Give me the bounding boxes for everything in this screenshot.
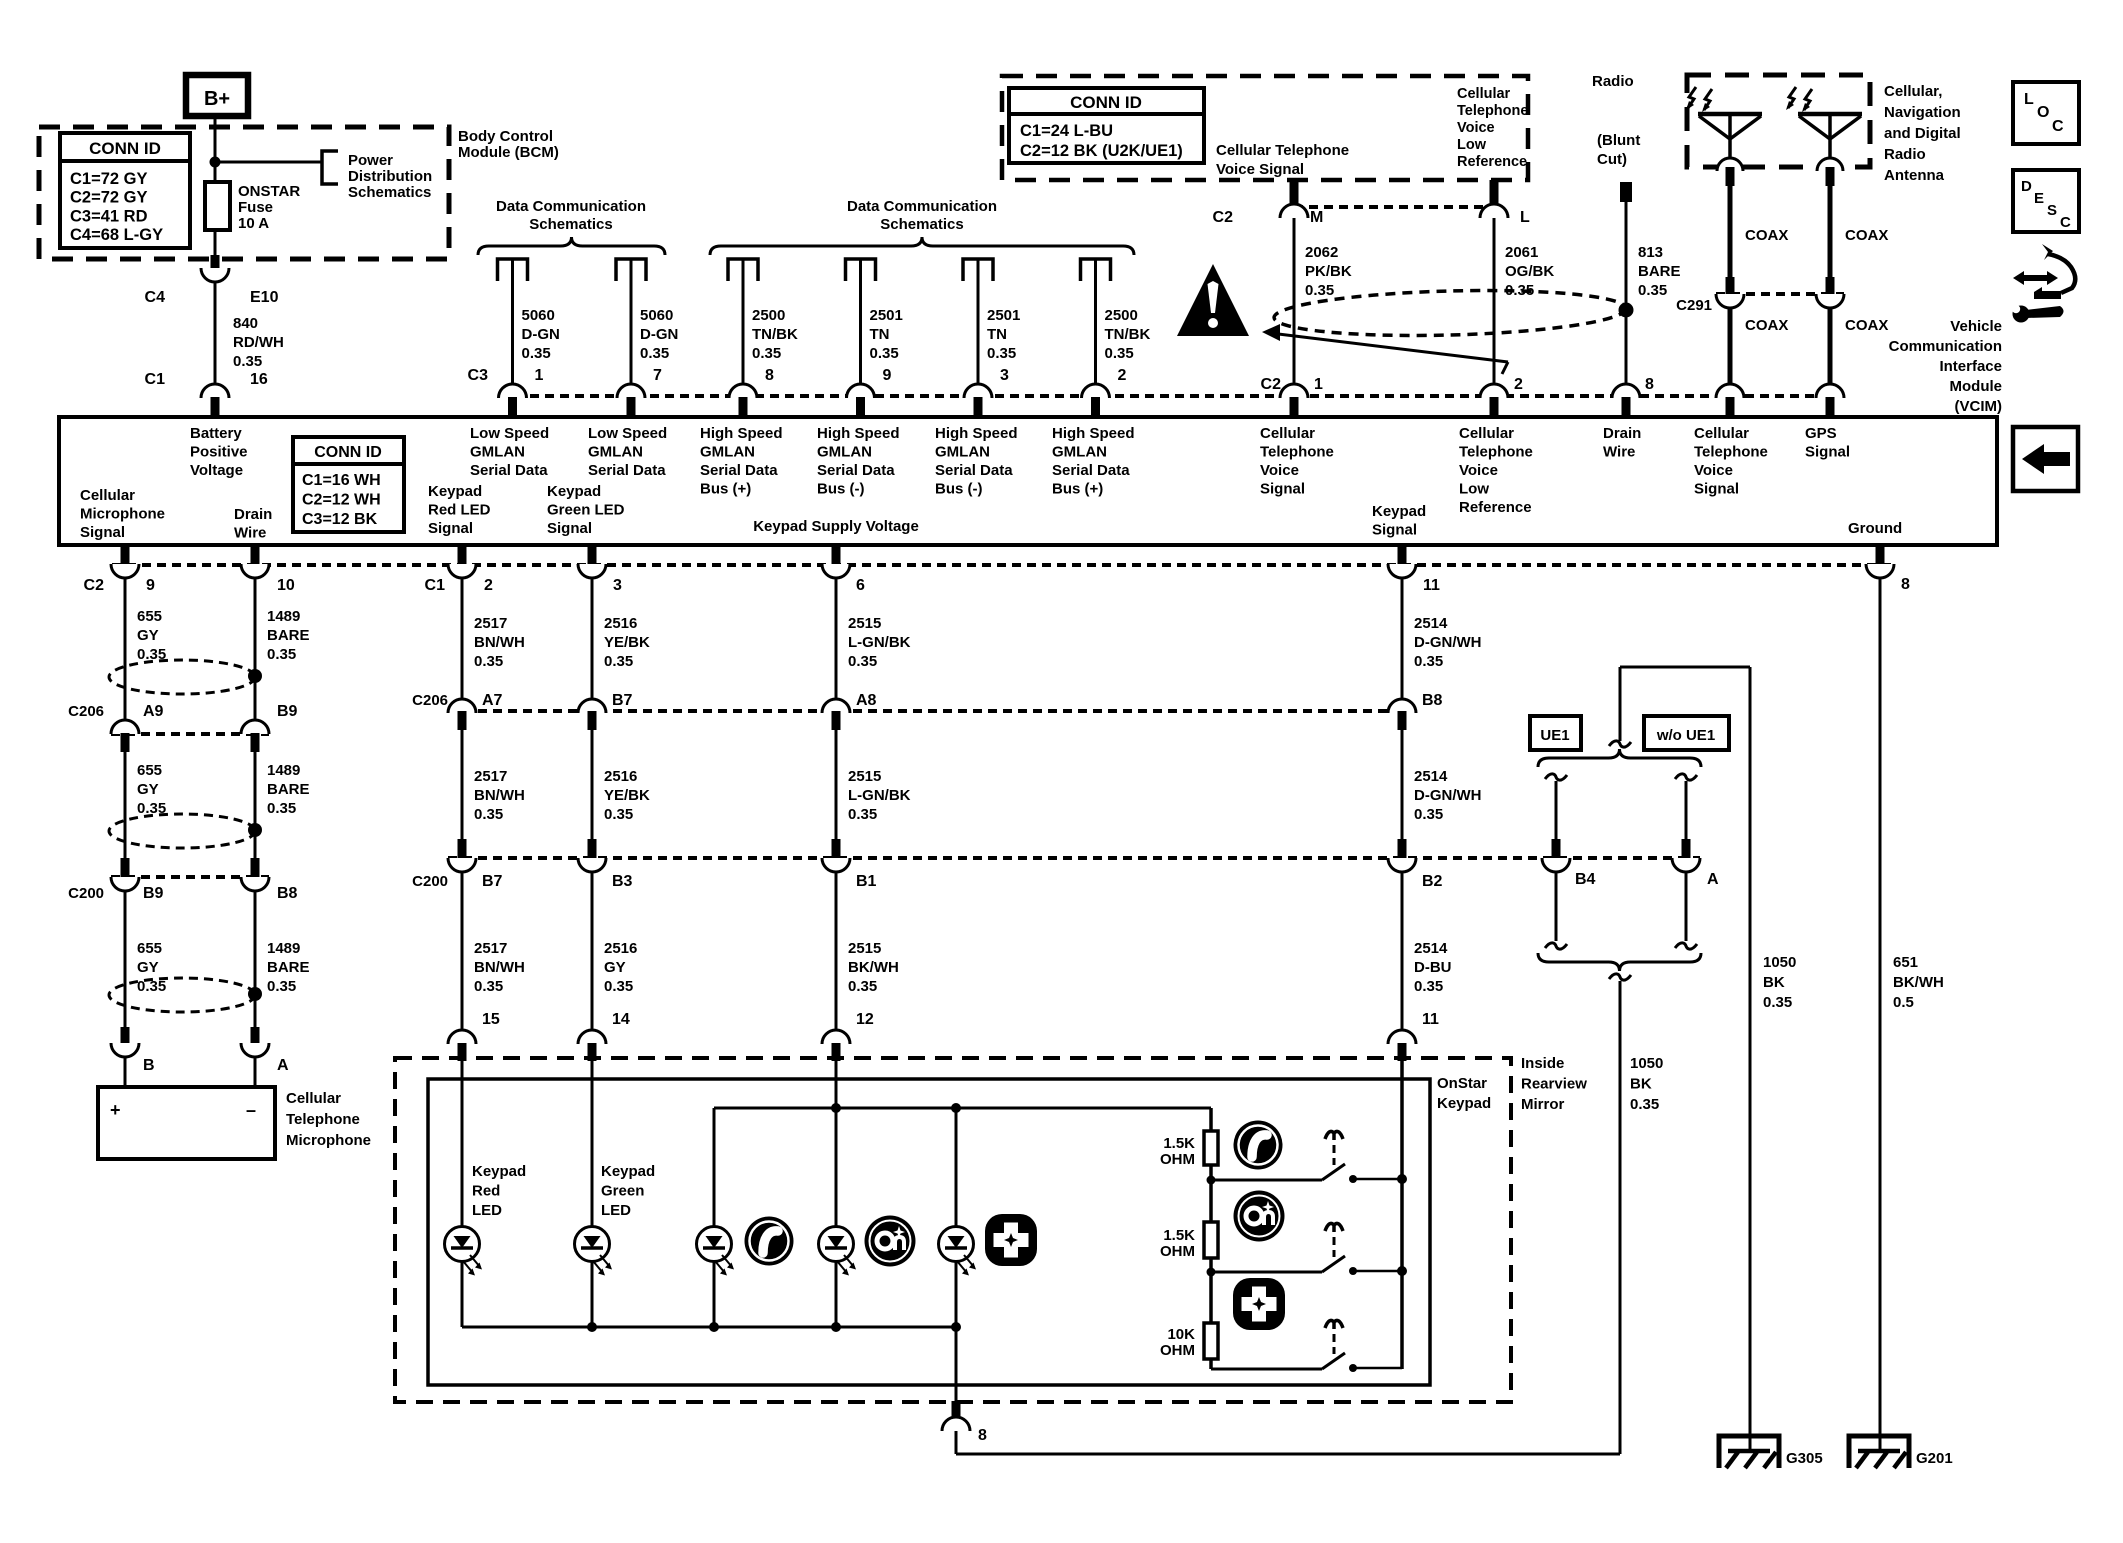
svg-text:B+: B+ xyxy=(204,88,230,110)
svg-text:D-BU: D-BU xyxy=(1414,959,1452,976)
svg-text:0.35: 0.35 xyxy=(640,345,669,362)
svg-text:G305: G305 xyxy=(1786,1450,1823,1467)
svg-text:Telephone: Telephone xyxy=(286,1111,360,1128)
svg-text:Keypad Supply Voltage: Keypad Supply Voltage xyxy=(753,518,919,535)
svg-text:High Speed: High Speed xyxy=(817,425,900,442)
svg-text:Keypad: Keypad xyxy=(1437,1095,1491,1112)
svg-text:7: 7 xyxy=(653,367,662,384)
svg-text:Serial Data: Serial Data xyxy=(1052,462,1130,479)
svg-text:Drain: Drain xyxy=(234,506,272,523)
svg-text:COAX: COAX xyxy=(1745,317,1788,334)
svg-text:C1: C1 xyxy=(425,577,446,594)
svg-text:Distribution: Distribution xyxy=(348,168,432,185)
svg-text:655: 655 xyxy=(137,762,162,779)
svg-text:Voltage: Voltage xyxy=(190,462,243,479)
svg-text:2517: 2517 xyxy=(474,940,507,957)
svg-text:Serial Data: Serial Data xyxy=(817,462,895,479)
svg-text:Red: Red xyxy=(472,1183,500,1200)
svg-text:C2=12 WH: C2=12 WH xyxy=(302,492,381,509)
svg-text:Telephone: Telephone xyxy=(1260,444,1334,461)
svg-text:0.35: 0.35 xyxy=(1414,653,1443,670)
svg-text:BARE: BARE xyxy=(267,959,310,976)
svg-text:Ground: Ground xyxy=(1848,520,1902,537)
svg-text:2515: 2515 xyxy=(848,615,881,632)
svg-text:1050: 1050 xyxy=(1630,1055,1663,1072)
svg-text:C200: C200 xyxy=(68,885,104,902)
svg-text:High Speed: High Speed xyxy=(935,425,1018,442)
svg-text:(VCIM): (VCIM) xyxy=(1955,398,2003,415)
svg-text:0.35: 0.35 xyxy=(1414,806,1443,823)
svg-text:11: 11 xyxy=(1423,577,1440,594)
svg-text:BK/WH: BK/WH xyxy=(848,959,899,976)
svg-text:High Speed: High Speed xyxy=(1052,425,1135,442)
svg-text:A9: A9 xyxy=(143,703,164,720)
svg-text:Telephone: Telephone xyxy=(1457,103,1528,119)
svg-text:C291: C291 xyxy=(1676,297,1712,314)
svg-text:2500: 2500 xyxy=(1105,307,1138,324)
svg-text:8: 8 xyxy=(1901,576,1910,593)
svg-text:Antenna: Antenna xyxy=(1884,167,1945,184)
svg-text:A: A xyxy=(1707,871,1719,888)
svg-text:0.35: 0.35 xyxy=(1638,282,1667,299)
svg-text:CONN ID: CONN ID xyxy=(314,444,382,461)
svg-text:Schematics: Schematics xyxy=(529,216,612,233)
svg-text:C1=16 WH: C1=16 WH xyxy=(302,472,381,489)
svg-text:840: 840 xyxy=(233,315,258,332)
svg-text:1.5K: 1.5K xyxy=(1163,1227,1195,1244)
svg-text:M: M xyxy=(1310,209,1323,226)
svg-text:1489: 1489 xyxy=(267,608,300,625)
svg-text:C4=68 L-GY: C4=68 L-GY xyxy=(70,226,163,244)
svg-text:and Digital: and Digital xyxy=(1884,125,1961,142)
svg-text:14: 14 xyxy=(612,1011,630,1028)
svg-text:E10: E10 xyxy=(250,289,279,306)
svg-text:Signal: Signal xyxy=(547,520,592,537)
svg-text:C2=12 BK (U2K/UE1): C2=12 BK (U2K/UE1) xyxy=(1020,142,1183,160)
svg-text:Mirror: Mirror xyxy=(1521,1096,1565,1113)
svg-text:TN/BK: TN/BK xyxy=(752,326,798,343)
svg-text:2515: 2515 xyxy=(848,768,881,785)
svg-text:0.35: 0.35 xyxy=(604,978,633,995)
svg-text:C206: C206 xyxy=(412,692,448,709)
svg-text:GMLAN: GMLAN xyxy=(700,444,755,461)
svg-text:Cellular: Cellular xyxy=(1694,425,1749,442)
svg-text:Cellular: Cellular xyxy=(286,1090,341,1107)
svg-text:Signal: Signal xyxy=(1260,481,1305,498)
svg-text:Inside: Inside xyxy=(1521,1055,1564,1072)
svg-text:Power: Power xyxy=(348,152,393,169)
svg-text:O: O xyxy=(2037,104,2049,121)
svg-text:0.35: 0.35 xyxy=(848,653,877,670)
svg-text:C1=24 L-BU: C1=24 L-BU xyxy=(1020,122,1113,140)
svg-text:C1=72 GY: C1=72 GY xyxy=(70,170,148,188)
svg-text:C3=41 RD: C3=41 RD xyxy=(70,207,148,225)
svg-text:655: 655 xyxy=(137,940,162,957)
svg-text:Microphone: Microphone xyxy=(286,1132,371,1149)
svg-text:Data Communication: Data Communication xyxy=(496,198,646,215)
svg-text:6: 6 xyxy=(856,577,865,594)
svg-text:GPS: GPS xyxy=(1805,425,1837,442)
svg-text:D: D xyxy=(2021,178,2032,195)
svg-text:Signal: Signal xyxy=(428,520,473,537)
svg-text:OnStar: OnStar xyxy=(1437,1075,1487,1092)
svg-text:2517: 2517 xyxy=(474,615,507,632)
svg-text:1489: 1489 xyxy=(267,940,300,957)
svg-text:0.35: 0.35 xyxy=(1105,345,1134,362)
svg-text:RD/WH: RD/WH xyxy=(233,334,284,351)
svg-text:1: 1 xyxy=(1314,376,1323,393)
svg-text:5060: 5060 xyxy=(522,307,555,324)
svg-text:UE1: UE1 xyxy=(1540,727,1569,744)
svg-text:Cellular Telephone: Cellular Telephone xyxy=(1216,142,1349,159)
svg-text:+: + xyxy=(110,1100,121,1120)
svg-text:Low Speed: Low Speed xyxy=(470,425,549,442)
svg-text:Voice: Voice xyxy=(1459,462,1498,479)
svg-text:0.35: 0.35 xyxy=(604,806,633,823)
svg-text:0.35: 0.35 xyxy=(233,353,262,370)
svg-text:Drain: Drain xyxy=(1603,425,1641,442)
svg-text:Red LED: Red LED xyxy=(428,502,491,519)
svg-text:0.35: 0.35 xyxy=(267,646,296,663)
svg-text:3: 3 xyxy=(1000,367,1009,384)
svg-text:Keypad: Keypad xyxy=(601,1163,655,1180)
svg-text:–: – xyxy=(246,1100,256,1120)
svg-text:B2: B2 xyxy=(1422,873,1443,890)
svg-text:2501: 2501 xyxy=(987,307,1020,324)
svg-text:GY: GY xyxy=(137,627,159,644)
svg-text:2516: 2516 xyxy=(604,615,637,632)
svg-text:Keypad: Keypad xyxy=(428,483,482,500)
svg-text:16: 16 xyxy=(250,371,268,388)
svg-text:9: 9 xyxy=(146,577,155,594)
svg-text:10 A: 10 A xyxy=(238,215,269,232)
svg-text:GMLAN: GMLAN xyxy=(470,444,525,461)
svg-text:BARE: BARE xyxy=(267,627,310,644)
svg-text:Navigation: Navigation xyxy=(1884,104,1961,121)
svg-text:COAX: COAX xyxy=(1745,227,1788,244)
svg-text:9: 9 xyxy=(883,367,892,384)
svg-text:OG/BK: OG/BK xyxy=(1505,263,1554,280)
svg-text:A8: A8 xyxy=(856,692,877,709)
svg-text:1489: 1489 xyxy=(267,762,300,779)
svg-text:0.35: 0.35 xyxy=(1763,994,1792,1011)
svg-text:Low: Low xyxy=(1459,481,1489,498)
svg-text:C: C xyxy=(2060,214,2071,231)
svg-text:Signal: Signal xyxy=(1805,444,1850,461)
svg-text:C1: C1 xyxy=(145,371,166,388)
svg-text:Signal: Signal xyxy=(80,524,125,541)
svg-text:w/o UE1: w/o UE1 xyxy=(1656,727,1715,744)
svg-text:Wire: Wire xyxy=(1603,444,1635,461)
svg-text:COAX: COAX xyxy=(1845,317,1888,334)
svg-text:CONN ID: CONN ID xyxy=(1070,93,1142,112)
svg-text:Serial Data: Serial Data xyxy=(588,462,666,479)
svg-text:3: 3 xyxy=(613,577,622,594)
svg-text:A: A xyxy=(277,1057,289,1074)
svg-text:OHM: OHM xyxy=(1160,1243,1195,1260)
svg-text:D-GN/WH: D-GN/WH xyxy=(1414,787,1482,804)
svg-text:L: L xyxy=(1520,209,1530,226)
svg-text:Cellular: Cellular xyxy=(80,487,135,504)
svg-text:Telephone: Telephone xyxy=(1694,444,1768,461)
svg-text:D-GN: D-GN xyxy=(522,326,560,343)
svg-text:Low: Low xyxy=(1457,137,1487,153)
svg-text:Reference: Reference xyxy=(1457,154,1527,170)
svg-text:Keypad: Keypad xyxy=(472,1163,526,1180)
svg-text:GMLAN: GMLAN xyxy=(1052,444,1107,461)
svg-text:BK: BK xyxy=(1630,1076,1652,1093)
svg-text:Module: Module xyxy=(1950,378,2003,395)
svg-text:11: 11 xyxy=(1422,1011,1439,1028)
svg-text:2515: 2515 xyxy=(848,940,881,957)
svg-text:BN/WH: BN/WH xyxy=(474,787,525,804)
svg-text:2061: 2061 xyxy=(1505,244,1538,261)
svg-text:0.35: 0.35 xyxy=(987,345,1016,362)
svg-text:12: 12 xyxy=(856,1011,874,1028)
svg-text:Signal: Signal xyxy=(1372,522,1417,539)
svg-text:C3=12 BK: C3=12 BK xyxy=(302,511,378,528)
svg-text:0.35: 0.35 xyxy=(137,646,166,663)
svg-text:B1: B1 xyxy=(856,873,877,890)
svg-text:C4: C4 xyxy=(145,289,166,306)
svg-text:GY: GY xyxy=(604,959,626,976)
svg-text:Voice: Voice xyxy=(1260,462,1299,479)
svg-text:High Speed: High Speed xyxy=(700,425,783,442)
svg-text:LED: LED xyxy=(601,1202,631,1219)
svg-text:Microphone: Microphone xyxy=(80,506,165,523)
svg-text:0.35: 0.35 xyxy=(1630,1096,1659,1113)
svg-text:15: 15 xyxy=(482,1011,500,1028)
svg-text:C2: C2 xyxy=(1261,376,1282,393)
svg-text:2514: 2514 xyxy=(1414,615,1448,632)
svg-text:Bus (-): Bus (-) xyxy=(935,481,983,498)
svg-text:0.35: 0.35 xyxy=(267,978,296,995)
svg-text:0.35: 0.35 xyxy=(848,978,877,995)
svg-text:2500: 2500 xyxy=(752,307,785,324)
svg-text:L-GN/BK: L-GN/BK xyxy=(848,634,911,651)
svg-text:Rearview: Rearview xyxy=(1521,1076,1587,1093)
svg-text:BARE: BARE xyxy=(267,781,310,798)
svg-text:Cellular: Cellular xyxy=(1459,425,1514,442)
svg-text:Signal: Signal xyxy=(1694,481,1739,498)
svg-text:B7: B7 xyxy=(612,692,633,709)
svg-text:B: B xyxy=(143,1057,155,1074)
svg-text:Data Communication: Data Communication xyxy=(847,198,997,215)
svg-text:0.35: 0.35 xyxy=(752,345,781,362)
svg-text:GMLAN: GMLAN xyxy=(817,444,872,461)
svg-text:OHM: OHM xyxy=(1160,1151,1195,1168)
svg-text:Bus (+): Bus (+) xyxy=(700,481,751,498)
svg-text:C2=72 GY: C2=72 GY xyxy=(70,189,148,207)
svg-text:C: C xyxy=(2052,118,2064,135)
svg-text:0.35: 0.35 xyxy=(474,653,503,670)
svg-text:0.5: 0.5 xyxy=(1893,994,1914,1011)
svg-text:Radio: Radio xyxy=(1884,146,1926,163)
svg-text:B9: B9 xyxy=(143,885,164,902)
svg-text:ONSTAR: ONSTAR xyxy=(238,183,300,200)
svg-text:C2: C2 xyxy=(1213,209,1234,226)
svg-text:1: 1 xyxy=(535,367,544,384)
svg-text:0.35: 0.35 xyxy=(137,978,166,995)
svg-text:2: 2 xyxy=(484,577,493,594)
svg-text:L: L xyxy=(2024,91,2034,108)
svg-text:GMLAN: GMLAN xyxy=(935,444,990,461)
svg-text:8: 8 xyxy=(1645,376,1654,393)
svg-text:Interface: Interface xyxy=(1939,358,2002,375)
svg-text:S: S xyxy=(2047,202,2057,219)
svg-text:D-GN/WH: D-GN/WH xyxy=(1414,634,1482,651)
svg-text:Battery: Battery xyxy=(190,425,242,442)
svg-text:2514: 2514 xyxy=(1414,940,1448,957)
svg-text:655: 655 xyxy=(137,608,162,625)
svg-text:(Blunt: (Blunt xyxy=(1597,132,1640,149)
svg-text:2: 2 xyxy=(1118,367,1127,384)
svg-text:0.35: 0.35 xyxy=(267,800,296,817)
svg-text:2501: 2501 xyxy=(870,307,903,324)
svg-text:PK/BK: PK/BK xyxy=(1305,263,1352,280)
svg-text:B7: B7 xyxy=(482,873,503,890)
svg-text:BN/WH: BN/WH xyxy=(474,634,525,651)
svg-text:B9: B9 xyxy=(277,703,298,720)
svg-text:Keypad: Keypad xyxy=(547,483,601,500)
svg-text:TN/BK: TN/BK xyxy=(1105,326,1151,343)
svg-text:G201: G201 xyxy=(1916,1450,1953,1467)
svg-text:A7: A7 xyxy=(482,692,503,709)
svg-text:0.35: 0.35 xyxy=(137,800,166,817)
svg-text:0.35: 0.35 xyxy=(1414,978,1443,995)
svg-text:BK/WH: BK/WH xyxy=(1893,974,1944,991)
svg-text:813: 813 xyxy=(1638,244,1663,261)
svg-text:5060: 5060 xyxy=(640,307,673,324)
svg-text:TN: TN xyxy=(870,326,890,343)
svg-text:C200: C200 xyxy=(412,873,448,890)
svg-text:Bus (-): Bus (-) xyxy=(817,481,865,498)
svg-text:LED: LED xyxy=(472,1202,502,1219)
svg-text:Cellular,: Cellular, xyxy=(1884,83,1942,100)
svg-text:GY: GY xyxy=(137,959,159,976)
svg-text:Reference: Reference xyxy=(1459,499,1532,516)
svg-text:8: 8 xyxy=(765,367,774,384)
svg-text:C206: C206 xyxy=(68,703,104,720)
svg-text:BN/WH: BN/WH xyxy=(474,959,525,976)
svg-text:0.35: 0.35 xyxy=(474,978,503,995)
svg-text:2516: 2516 xyxy=(604,940,637,957)
svg-text:C2: C2 xyxy=(84,577,105,594)
svg-text:Serial Data: Serial Data xyxy=(470,462,548,479)
svg-text:0.35: 0.35 xyxy=(870,345,899,362)
svg-text:Serial Data: Serial Data xyxy=(700,462,778,479)
svg-text:Telephone: Telephone xyxy=(1459,444,1533,461)
svg-text:COAX: COAX xyxy=(1845,227,1888,244)
svg-text:Cut): Cut) xyxy=(1597,151,1627,168)
svg-text:YE/BK: YE/BK xyxy=(604,634,650,651)
svg-text:Cellular: Cellular xyxy=(1457,86,1511,102)
svg-text:E: E xyxy=(2034,190,2044,207)
svg-text:Communication: Communication xyxy=(1889,338,2002,355)
svg-text:Green: Green xyxy=(601,1183,644,1200)
svg-text:2517: 2517 xyxy=(474,768,507,785)
svg-text:0.35: 0.35 xyxy=(474,806,503,823)
svg-text:BK: BK xyxy=(1763,974,1785,991)
svg-text:CONN ID: CONN ID xyxy=(89,139,161,158)
svg-text:Positive: Positive xyxy=(190,444,248,461)
svg-text:Green LED: Green LED xyxy=(547,502,625,519)
svg-text:OHM: OHM xyxy=(1160,1342,1195,1359)
svg-text:Schematics: Schematics xyxy=(880,216,963,233)
svg-text:Keypad: Keypad xyxy=(1372,503,1426,520)
svg-text:10: 10 xyxy=(277,577,295,594)
svg-text:2: 2 xyxy=(1514,376,1523,393)
svg-text:Fuse: Fuse xyxy=(238,199,273,216)
svg-text:651: 651 xyxy=(1893,954,1918,971)
svg-text:0.35: 0.35 xyxy=(1305,282,1334,299)
svg-text:Voice: Voice xyxy=(1694,462,1733,479)
svg-text:TN: TN xyxy=(987,326,1007,343)
svg-text:GY: GY xyxy=(137,781,159,798)
svg-text:GMLAN: GMLAN xyxy=(588,444,643,461)
svg-text:B8: B8 xyxy=(277,885,298,902)
svg-text:Schematics: Schematics xyxy=(348,184,431,201)
svg-text:0.35: 0.35 xyxy=(848,806,877,823)
svg-text:Low Speed: Low Speed xyxy=(588,425,667,442)
svg-text:C3: C3 xyxy=(468,367,489,384)
svg-text:B3: B3 xyxy=(612,873,633,890)
svg-text:1050: 1050 xyxy=(1763,954,1796,971)
svg-text:Cellular: Cellular xyxy=(1260,425,1315,442)
svg-text:YE/BK: YE/BK xyxy=(604,787,650,804)
svg-text:B8: B8 xyxy=(1422,692,1443,709)
svg-text:10K: 10K xyxy=(1167,1326,1195,1343)
svg-text:Radio: Radio xyxy=(1592,73,1634,90)
svg-text:0.35: 0.35 xyxy=(522,345,551,362)
svg-text:8: 8 xyxy=(978,1427,987,1444)
svg-text:2062: 2062 xyxy=(1305,244,1338,261)
svg-text:BARE: BARE xyxy=(1638,263,1681,280)
svg-text:D-GN: D-GN xyxy=(640,326,678,343)
svg-text:Wire: Wire xyxy=(234,525,266,542)
svg-text:2516: 2516 xyxy=(604,768,637,785)
svg-text:2514: 2514 xyxy=(1414,768,1448,785)
svg-text:Vehicle: Vehicle xyxy=(1950,318,2002,335)
svg-text:0.35: 0.35 xyxy=(604,653,633,670)
svg-text:1.5K: 1.5K xyxy=(1163,1135,1195,1152)
svg-text:Body Control: Body Control xyxy=(458,128,553,145)
svg-text:Voice Signal: Voice Signal xyxy=(1216,161,1304,178)
svg-text:L-GN/BK: L-GN/BK xyxy=(848,787,911,804)
svg-text:Bus (+): Bus (+) xyxy=(1052,481,1103,498)
svg-text:Serial Data: Serial Data xyxy=(935,462,1013,479)
svg-text:Voice: Voice xyxy=(1457,120,1495,136)
svg-text:Module (BCM): Module (BCM) xyxy=(458,144,559,161)
svg-text:B4: B4 xyxy=(1575,871,1596,888)
